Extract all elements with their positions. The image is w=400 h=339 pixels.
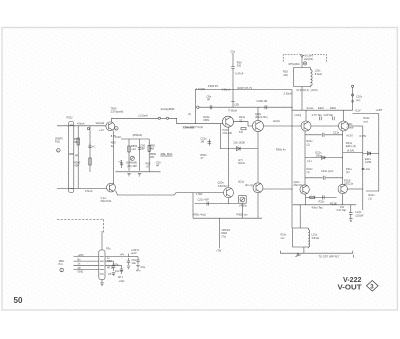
node dot on rail xyxy=(352,100,354,102)
label P217 (A) xyxy=(346,167,353,174)
label C601 value xyxy=(132,258,137,265)
svg-text:1.8(Vbe): 1.8(Vbe) xyxy=(218,184,228,188)
svg-text:P2x: P2x xyxy=(106,246,111,250)
svg-text:100x: 100x xyxy=(316,154,322,158)
ground below connector xyxy=(100,280,104,286)
wire lower cross rail xyxy=(199,106,293,108)
transistor Q502 xyxy=(107,183,116,192)
svg-text:C20 Tap: C20 Tap xyxy=(324,113,334,117)
capacitor C509 xyxy=(257,99,268,109)
resistor R506 xyxy=(146,161,151,168)
label Q207 2SC xyxy=(294,180,304,187)
svg-text:64n: 64n xyxy=(296,62,301,66)
capacitor C8 bars xyxy=(210,105,212,109)
svg-text:2.30uA: 2.30uA xyxy=(284,92,292,96)
wire branch down from base line xyxy=(219,124,221,149)
sheet number diamond 3 xyxy=(367,281,379,292)
wire connector pin 3 xyxy=(74,264,99,266)
wire Q205 base link xyxy=(311,125,339,127)
label R50 4 lower xyxy=(201,153,208,160)
node open circle on cross rail xyxy=(197,106,199,108)
resistor E219 100 xyxy=(316,150,323,157)
svg-text:C6x: C6x xyxy=(141,265,146,269)
capacitor C218 coupling xyxy=(305,176,343,180)
capacitor C601 xyxy=(127,258,130,265)
wire right top rail xyxy=(292,109,353,111)
svg-text:220: 220 xyxy=(237,63,242,67)
component cluster smudge xyxy=(107,259,124,279)
capacitor C213 xyxy=(312,113,323,120)
wire bottom rail right section xyxy=(293,204,357,206)
wire right section left rail xyxy=(291,90,293,229)
resistor R208 220 xyxy=(237,60,242,67)
diode D203 xyxy=(363,152,379,156)
label QB 2SC xyxy=(238,180,253,187)
HV coil box L205 xyxy=(294,68,313,87)
wire link to mid rail xyxy=(343,152,363,154)
transistor Q207 xyxy=(300,185,309,194)
svg-text:Q21x: Q21x xyxy=(238,180,245,184)
svg-text:(xx): (xx) xyxy=(364,119,368,123)
svg-text:1W: 1W xyxy=(340,205,344,209)
svg-text:10.5kV: 10.5kV xyxy=(305,53,313,57)
wire HV box bottom lead xyxy=(301,87,303,111)
svg-text:4.89mA: 4.89mA xyxy=(222,87,231,91)
svg-text:4P: 4P xyxy=(156,164,159,168)
svg-text:C5x: C5x xyxy=(230,49,235,53)
wire ABL box top xyxy=(121,138,149,140)
coil box L219 xyxy=(293,228,310,248)
svg-text:20x 1K2B: 20x 1K2B xyxy=(234,140,246,144)
wire Q206 emitter down xyxy=(342,131,344,184)
svg-text:2.5V(push): 2.5V(push) xyxy=(111,110,124,114)
wire Q208 emitter down xyxy=(342,194,344,205)
svg-text:4M: 4M xyxy=(150,147,154,151)
svg-text:.07: .07 xyxy=(146,164,150,168)
svg-text:C209 1M: C209 1M xyxy=(257,99,268,103)
svg-text:C21x 41P: C21x 41P xyxy=(198,198,210,202)
svg-text:x10x: x10x xyxy=(119,279,125,283)
svg-text:8.0uH: 8.0uH xyxy=(315,72,322,76)
bracket TO CRT plate xyxy=(280,251,352,257)
transistor Q210 xyxy=(253,183,263,193)
capacitor C507 top xyxy=(231,53,234,90)
label Q206 Comb xyxy=(347,122,354,129)
label TO CRT HV xyxy=(304,53,313,61)
wire top rail xyxy=(195,89,292,91)
svg-text:(R50uA): (R50uA) xyxy=(133,133,143,137)
wire QA emitter down xyxy=(228,198,230,204)
capacitor C216 coupling xyxy=(305,130,343,136)
svg-text:E21A: E21A xyxy=(274,119,281,123)
svg-text:4P: 4P xyxy=(207,98,210,102)
transistor Q208 xyxy=(338,184,347,193)
svg-text:10u: 10u xyxy=(132,261,137,265)
svg-text:2SC17x: 2SC17x xyxy=(294,183,304,187)
connector P203 xyxy=(99,250,105,280)
svg-text:2SC1741: 2SC1741 xyxy=(101,199,112,203)
wire Q206 emitter right xyxy=(349,125,363,127)
node circled 2 xyxy=(57,149,61,153)
label 759V 2.5V(push) above Q501 xyxy=(111,107,124,114)
svg-text:DRN: DRN xyxy=(204,118,210,122)
resistor R212 between xyxy=(239,127,246,134)
wire segment xyxy=(161,117,167,119)
svg-text:VR20x: VR20x xyxy=(239,203,247,207)
resistor R222 47 xyxy=(194,212,207,216)
svg-text:4.7V Tap: 4.7V Tap xyxy=(312,113,323,117)
wire Q502 collector to QA base xyxy=(116,191,224,195)
svg-text:+4V: +4V xyxy=(120,253,125,257)
resistor R215 xyxy=(364,116,371,123)
svg-text:17Wx: 17Wx xyxy=(196,192,203,196)
svg-text:P(2): P(2) xyxy=(55,140,60,144)
junction cross mark xyxy=(231,98,234,107)
capacitor C604 xyxy=(136,257,139,265)
resistor R505 xyxy=(111,141,116,148)
svg-text:0.47uF: 0.47uF xyxy=(235,72,243,76)
svg-text:(1): (1) xyxy=(307,170,310,174)
capacitor C503 xyxy=(138,143,146,150)
svg-text:68k: 68k xyxy=(74,140,79,144)
label L205 80uH xyxy=(315,69,322,76)
transistor Q209 xyxy=(224,188,234,198)
svg-text:(1): (1) xyxy=(307,142,310,146)
resistor R220 xyxy=(369,193,376,200)
svg-text:4P: 4P xyxy=(78,266,81,270)
svg-text:E21x (4): E21x (4) xyxy=(346,144,356,148)
label cluster (1/4W)(8)16P xyxy=(126,161,137,168)
svg-text:Arrow: Arrow xyxy=(307,106,314,110)
svg-text:3mAe(48)W: 3mAe(48)W xyxy=(161,107,175,111)
transistor Q204 xyxy=(253,121,264,132)
wire branch x229 xyxy=(232,90,234,99)
capacitor C603 xyxy=(120,265,123,274)
wire input top xyxy=(57,125,106,127)
svg-text:2.1V(W): 2.1V(W) xyxy=(196,87,206,91)
wire lower rail xyxy=(193,217,262,219)
node circle on rail xyxy=(352,94,354,96)
svg-text:(T)x: (T)x xyxy=(222,234,227,238)
wire HV box top lead xyxy=(301,58,303,68)
wire Q210 emitter down xyxy=(257,193,259,218)
wire feed to bottom connector xyxy=(103,219,105,233)
wire Q205 emitter down xyxy=(304,131,306,185)
capacitor C602 xyxy=(112,261,115,271)
connector P202 xyxy=(69,122,74,193)
svg-text:Comb(W): Comb(W) xyxy=(183,126,194,130)
svg-text:4Px: 4Px xyxy=(136,268,141,272)
wire Q204 emitter chain down xyxy=(257,132,259,183)
label Q208 2SD xyxy=(344,178,354,185)
svg-text:+CRT: +CRT xyxy=(376,108,383,112)
label QA 1.8(Vbe) xyxy=(218,181,228,188)
svg-text:6.8: 6.8 xyxy=(239,130,243,134)
svg-text:+C: +C xyxy=(92,144,96,148)
label ABL BAL underlined xyxy=(159,152,172,156)
wire Q210 to right rail xyxy=(263,188,293,190)
svg-text:E20x: E20x xyxy=(318,106,325,110)
label V inv 2SC1741 below Q502 xyxy=(101,196,112,203)
wire mid vertical feed xyxy=(195,90,197,124)
svg-text:(2n-xx): (2n-xx) xyxy=(245,183,253,187)
wire Q206 collector up xyxy=(343,110,345,121)
wire pin6 branch right xyxy=(105,264,122,266)
svg-text:Pxx: Pxx xyxy=(59,262,64,266)
label P22x R21B xyxy=(319,200,337,206)
svg-text:Hi x: Hi x xyxy=(308,159,313,163)
svg-text:(4.5A): (4.5A) xyxy=(347,149,354,153)
wire ABL right branch xyxy=(148,139,150,172)
svg-text:(xx): (xx) xyxy=(356,98,360,102)
label C8 4P xyxy=(207,95,212,102)
label C208 xyxy=(356,95,363,102)
wire coil to bracket xyxy=(303,247,305,253)
svg-text:GND: GND xyxy=(78,270,84,274)
wire bottom input xyxy=(57,188,107,190)
node circled 1 xyxy=(60,268,64,272)
diode D201 xyxy=(237,147,241,151)
resistor R211 52 xyxy=(239,115,246,122)
wire Q204 collector up xyxy=(257,107,259,120)
diode D202 xyxy=(305,156,343,160)
resistor R217 xyxy=(307,139,314,146)
svg-text:R207 (07-7V: R207 (07-7V xyxy=(238,86,253,90)
node open circle a xyxy=(158,117,160,119)
wire branch c604 xyxy=(129,256,139,258)
svg-text:1M: 1M xyxy=(201,140,205,144)
wire lower link line xyxy=(306,196,337,198)
node circled 0 xyxy=(115,127,119,131)
wire pin5 branch right xyxy=(105,260,114,262)
svg-text:R20x: R20x xyxy=(330,106,337,110)
wire feed solid xyxy=(101,231,103,250)
label B pins xyxy=(78,257,84,273)
trimmer VR501 xyxy=(130,156,134,160)
svg-text:(1/2)W: (1/2)W xyxy=(356,213,364,217)
resistor R504 xyxy=(148,143,156,151)
svg-text:50: 50 xyxy=(14,296,23,305)
svg-text:4P: 4P xyxy=(75,153,78,157)
label R500 18V xyxy=(150,152,157,159)
wire Q204 to Q205 xyxy=(264,125,302,127)
svg-text:F-50uA: F-50uA xyxy=(229,108,238,112)
node open circle b xyxy=(166,117,168,119)
svg-text:V-OUT: V-OUT xyxy=(338,282,362,291)
svg-text:(1.5)mA: (1.5)mA xyxy=(139,114,148,118)
svg-text:18V: 18V xyxy=(150,155,155,159)
capacitor C221 xyxy=(198,198,210,206)
wire Q203 to Q204 xyxy=(234,122,253,126)
ground ABL mid xyxy=(138,174,141,176)
svg-text:C21x (xxx): C21x (xxx) xyxy=(321,169,334,173)
svg-text:+12V: +12V xyxy=(115,135,121,139)
svg-text:(Tb): (Tb) xyxy=(217,248,222,252)
wire Q203 emitter chain down xyxy=(227,127,229,187)
svg-text:41P: 41P xyxy=(74,164,79,168)
capacitor C219 xyxy=(323,195,325,199)
svg-text:(A): (A) xyxy=(346,170,350,174)
label Q204 2SC1741 xyxy=(255,112,268,119)
node open circle xyxy=(87,128,89,130)
bracket TO CRT HV dashed xyxy=(283,55,326,62)
resistor R501 xyxy=(74,126,81,189)
label Arrow E208 R209 xyxy=(307,106,337,110)
ground cluster b xyxy=(127,266,130,269)
transistor Q206 xyxy=(339,121,349,131)
label C604 xyxy=(136,265,146,272)
svg-text:40mH: 40mH xyxy=(238,161,245,165)
trimmer VR201 xyxy=(239,196,247,204)
ground ABL left xyxy=(127,174,130,176)
svg-text:230: 230 xyxy=(283,73,288,77)
svg-text:(18) 16P: (18) 16P xyxy=(127,164,137,168)
label 180 P xyxy=(59,259,65,266)
svg-text:C21x: C21x xyxy=(333,130,340,134)
label R206 DRN xyxy=(204,115,211,122)
svg-text:(2SC1741): (2SC1741) xyxy=(255,115,268,119)
transistor Q203 xyxy=(223,116,234,127)
wire Q208 emitter right xyxy=(347,188,362,190)
tick mark xyxy=(353,255,355,258)
label L219 3.8mH xyxy=(312,233,320,240)
svg-text:P205 R7: P205 R7 xyxy=(208,84,219,88)
svg-text:P22x: P22x xyxy=(319,200,326,204)
wire connector pin 2 xyxy=(74,260,99,262)
wire connector pin 4 xyxy=(74,268,99,270)
label UPPER GND (T) xyxy=(222,228,231,238)
svg-text:+1V: +1V xyxy=(99,128,104,132)
wire QA lower left rail xyxy=(192,193,194,219)
wire Q501 collector up xyxy=(112,118,159,122)
svg-text:4.5mA: 4.5mA xyxy=(85,189,93,193)
label E217 1/2W xyxy=(365,157,372,164)
resistor R502 xyxy=(74,126,91,172)
wire Q207 emitter down xyxy=(305,194,307,205)
wire right mid rail xyxy=(362,126,364,210)
wire Q501 emitter to Q502 collector xyxy=(113,131,115,185)
svg-text:+CRTx: +CRTx xyxy=(131,248,140,252)
label P210 COLOR below Q203 xyxy=(223,128,232,135)
ground cluster c xyxy=(136,265,139,268)
wire to lower CRT plate xyxy=(219,218,221,248)
svg-text:HV(/22): HV(/22) xyxy=(304,57,313,61)
svg-text:COLOR: COLOR xyxy=(223,131,232,135)
svg-text:(1.8u): (1.8u) xyxy=(295,113,302,117)
wire ABL left branch xyxy=(128,139,130,171)
svg-text:P202: P202 xyxy=(67,116,74,120)
svg-text:4P x: 4P x xyxy=(118,275,124,279)
node L217 xyxy=(362,167,371,171)
label P215 left of coil xyxy=(281,233,288,240)
wire lower mid line xyxy=(195,203,239,205)
wire +12V branch xyxy=(105,254,129,257)
capacitor C211 xyxy=(201,136,208,143)
ground right xyxy=(349,219,353,222)
arrow to CRT heater xyxy=(299,54,305,58)
resistor R209 230 xyxy=(283,70,288,77)
wire segment jog xyxy=(169,118,223,123)
svg-text:+C: +C xyxy=(118,159,122,163)
wire +CRT rail xyxy=(353,114,379,191)
wire trimmer down xyxy=(241,203,243,218)
coil L207 xyxy=(238,158,245,165)
wire coil box feed xyxy=(299,205,301,228)
svg-text:18P: 18P xyxy=(140,147,145,151)
svg-text:+0.5V: +0.5V xyxy=(346,134,353,138)
resistor R219 xyxy=(307,167,314,174)
wire ABL bottom xyxy=(116,171,161,173)
svg-text:6.35V: 6.35V xyxy=(360,134,367,138)
resistor R218 E218 xyxy=(346,141,356,148)
svg-text:L21x: L21x xyxy=(365,167,371,171)
node circled E xyxy=(303,62,306,65)
transistor Q205 xyxy=(301,121,311,131)
wire connector pin 1 xyxy=(74,256,99,258)
resistor R503 xyxy=(128,144,138,152)
capacitor C211 symbol xyxy=(208,139,212,146)
wire Q205 collector up xyxy=(305,110,307,121)
wire mid link xyxy=(220,148,257,150)
transistor Q501 xyxy=(106,122,115,131)
capacitor C505 xyxy=(156,161,161,168)
junction cross xyxy=(69,153,74,155)
svg-text:(1): (1) xyxy=(369,196,372,200)
label (sweep) from xyxy=(55,137,63,144)
svg-text:+20V: +20V xyxy=(78,253,84,257)
resistor R223 xyxy=(237,212,249,216)
capacitor C504 electrolytic xyxy=(118,159,123,168)
svg-text:+12: +12 xyxy=(131,147,136,151)
label L218 1/2W xyxy=(356,210,364,217)
svg-text:4.9mA: 4.9mA xyxy=(77,121,85,125)
svg-text:ABL BAL: ABL BAL xyxy=(159,152,172,156)
svg-text:(20): (20) xyxy=(235,102,240,106)
wire ABL mid branch xyxy=(139,139,141,171)
svg-text:1/2W: 1/2W xyxy=(365,160,372,164)
resistor R221 xyxy=(310,196,315,198)
svg-text:(7): (7) xyxy=(188,112,191,116)
svg-text:TO CRT UPP PLT: TO CRT UPP PLT xyxy=(319,254,340,258)
svg-text:P50x 4x(x): P50x 4x(x) xyxy=(194,212,207,216)
capacitor C214 xyxy=(324,113,335,120)
svg-text:4.8xx Tap: 4.8xx Tap xyxy=(312,206,324,210)
svg-text:(6.3V)(3.1) - (10V): (6.3V)(3.1) - (10V) xyxy=(297,88,318,92)
svg-text:P50B xxx: P50B xxx xyxy=(237,212,249,216)
svg-text:+12V: +12V xyxy=(355,108,361,112)
wire +12V rail xyxy=(352,85,354,110)
capacitor C220 to ground xyxy=(349,205,353,219)
shield dash-dot boundary xyxy=(57,218,104,220)
svg-text:3.8mH: 3.8mH xyxy=(312,236,320,240)
capacitor C501 xyxy=(88,144,95,149)
svg-text:R50u 4x: R50u 4x xyxy=(276,147,286,151)
svg-text:Vertical: Vertical xyxy=(96,121,105,125)
ground cluster a xyxy=(112,273,115,276)
